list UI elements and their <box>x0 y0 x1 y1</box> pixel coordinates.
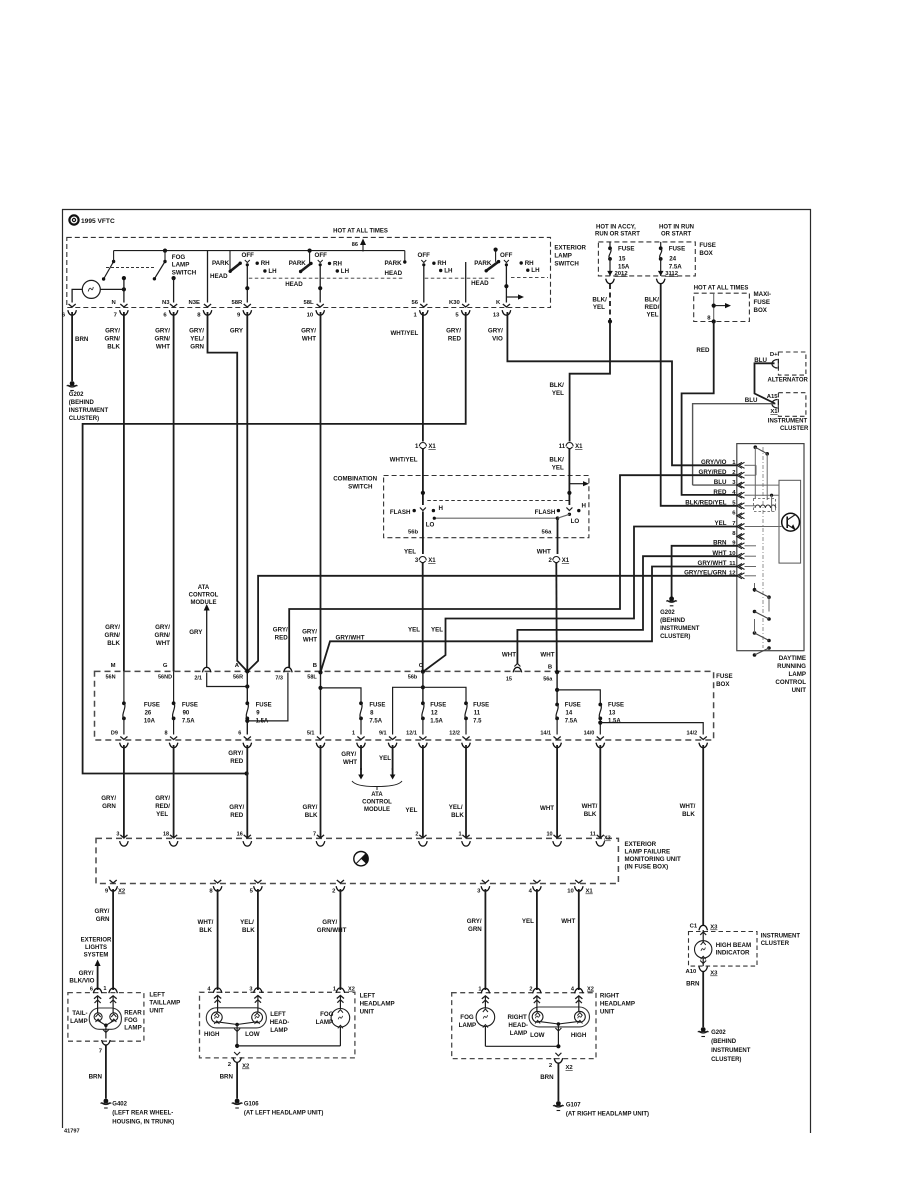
svg-text:ATA: ATA <box>371 792 383 798</box>
svg-text:FUSE: FUSE <box>430 703 446 709</box>
svg-text:GRN: GRN <box>190 344 204 351</box>
svg-text:RIGHT: RIGHT <box>600 993 619 1000</box>
svg-text:FUSE: FUSE <box>473 703 489 709</box>
svg-text:C1: C1 <box>690 924 698 930</box>
svg-text:(LEFT REAR WHEEL-: (LEFT REAR WHEEL- <box>112 1111 173 1117</box>
svg-text:HEAD: HEAD <box>210 273 228 280</box>
svg-text:LO: LO <box>426 522 435 529</box>
svg-text:13: 13 <box>493 313 500 319</box>
svg-text:BRN: BRN <box>75 336 89 343</box>
svg-text:2/1: 2/1 <box>194 676 202 682</box>
svg-text:GRY/: GRY/ <box>155 795 170 802</box>
svg-text:RED/: RED/ <box>645 304 660 311</box>
svg-text:HOT IN RUN: HOT IN RUN <box>659 225 694 231</box>
svg-text:X2: X2 <box>566 1065 574 1071</box>
svg-text:BLK/: BLK/ <box>592 297 607 304</box>
svg-text:LEFT: LEFT <box>149 992 165 999</box>
svg-text:WHT: WHT <box>502 652 516 659</box>
svg-text:BLK: BLK <box>107 640 120 647</box>
svg-text:B: B <box>548 665 552 671</box>
svg-text:WHT: WHT <box>302 336 316 343</box>
svg-text:BLK: BLK <box>107 344 120 351</box>
svg-text:WHT: WHT <box>303 637 317 644</box>
svg-text:13: 13 <box>609 711 616 717</box>
svg-text:CLUSTER: CLUSTER <box>761 941 790 947</box>
svg-text:TAILLAMP: TAILLAMP <box>149 1000 180 1007</box>
svg-text:RUNNING: RUNNING <box>777 663 806 670</box>
svg-text:(IN FUSE BOX): (IN FUSE BOX) <box>625 864 669 871</box>
svg-text:RED: RED <box>448 336 462 343</box>
svg-text:GRY: GRY <box>230 328 244 335</box>
svg-text:FUSE: FUSE <box>369 703 385 709</box>
svg-text:RH: RH <box>333 260 342 267</box>
svg-text:14: 14 <box>566 711 573 717</box>
svg-text:BOX: BOX <box>699 250 713 257</box>
svg-text:58L: 58L <box>307 675 317 681</box>
svg-text:REAR: REAR <box>124 1010 142 1017</box>
svg-text:FUSE: FUSE <box>754 299 771 306</box>
svg-text:5/1: 5/1 <box>307 731 315 737</box>
svg-text:OR START: OR START <box>661 232 692 238</box>
svg-text:2012: 2012 <box>615 271 629 277</box>
svg-text:D9: D9 <box>111 731 118 737</box>
svg-text:BLK/: BLK/ <box>549 457 564 464</box>
svg-text:7.5A: 7.5A <box>369 719 382 725</box>
svg-text:HEAD: HEAD <box>385 270 403 277</box>
svg-text:BOX: BOX <box>754 307 768 314</box>
svg-text:INSTRUMENT: INSTRUMENT <box>768 419 808 425</box>
svg-text:INDICATOR: INDICATOR <box>716 950 750 957</box>
svg-text:WHT/: WHT/ <box>198 919 214 926</box>
svg-text:YEL: YEL <box>522 918 534 925</box>
svg-text:(BEHIND: (BEHIND <box>660 618 686 624</box>
svg-text:FOG: FOG <box>124 1017 138 1024</box>
svg-text:FUSE: FUSE <box>618 246 635 253</box>
svg-text:X3: X3 <box>710 971 718 977</box>
svg-text:GRN/WHT: GRN/WHT <box>317 927 347 934</box>
svg-text:B: B <box>313 663 317 669</box>
svg-text:56N: 56N <box>106 675 116 681</box>
svg-text:56: 56 <box>412 300 419 306</box>
svg-text:FOG: FOG <box>460 1014 474 1021</box>
svg-text:EXTERIOR: EXTERIOR <box>625 841 657 848</box>
svg-text:FUSE: FUSE <box>608 703 624 709</box>
svg-text:WHT: WHT <box>537 549 551 556</box>
svg-text:RED: RED <box>696 347 710 354</box>
svg-text:3: 3 <box>249 987 252 993</box>
svg-text:LAMP: LAMP <box>172 262 190 269</box>
svg-text:GRY/: GRY/ <box>322 919 337 926</box>
svg-text:DAYTIME: DAYTIME <box>779 655 806 662</box>
svg-text:CONTROL: CONTROL <box>189 593 219 599</box>
svg-text:YEL: YEL <box>408 627 420 634</box>
svg-text:HOT AT ALL TIMES: HOT AT ALL TIMES <box>694 286 749 292</box>
svg-text:RED: RED <box>230 812 244 819</box>
svg-text:WHT: WHT <box>156 640 170 647</box>
svg-text:GRY/: GRY/ <box>105 328 120 335</box>
svg-text:BLK: BLK <box>242 927 255 934</box>
svg-text:INSTRUMENT: INSTRUMENT <box>660 626 700 632</box>
svg-text:N3: N3 <box>162 300 170 306</box>
svg-text:14/2: 14/2 <box>686 731 697 737</box>
svg-text:GRN: GRN <box>468 926 482 933</box>
svg-text:WHT: WHT <box>561 918 575 925</box>
svg-text:C: C <box>419 663 424 669</box>
svg-text:6: 6 <box>238 731 241 737</box>
svg-text:X1: X1 <box>770 409 778 415</box>
svg-text:BLK: BLK <box>199 927 212 934</box>
svg-text:LAMP FAILURE: LAMP FAILURE <box>625 849 671 856</box>
svg-text:COMBINATION: COMBINATION <box>333 476 377 483</box>
svg-text:7.5: 7.5 <box>473 719 482 725</box>
svg-text:FLASH: FLASH <box>535 509 556 516</box>
svg-text:56b: 56b <box>408 530 419 536</box>
svg-text:10A: 10A <box>144 719 156 725</box>
svg-text:15: 15 <box>619 256 626 263</box>
svg-text:G107: G107 <box>566 1103 581 1109</box>
svg-text:UNIT: UNIT <box>360 1009 375 1016</box>
svg-text:A: A <box>235 663 240 669</box>
svg-text:(BEHIND: (BEHIND <box>711 1039 737 1045</box>
svg-text:X1: X1 <box>586 889 594 895</box>
svg-text:BRN: BRN <box>220 1074 234 1081</box>
svg-text:GRY/: GRY/ <box>301 328 316 335</box>
svg-text:X1: X1 <box>562 558 570 564</box>
svg-text:GRN/: GRN/ <box>155 336 171 343</box>
svg-text:GRY/: GRY/ <box>273 627 288 634</box>
svg-text:RH: RH <box>261 260 270 267</box>
svg-text:HIGH BEAM: HIGH BEAM <box>716 942 751 949</box>
svg-text:GRY/: GRY/ <box>228 750 243 757</box>
svg-text:LOW: LOW <box>530 1032 545 1039</box>
svg-text:PARK: PARK <box>289 260 307 267</box>
svg-text:7.5A: 7.5A <box>182 719 195 725</box>
svg-text:11: 11 <box>559 444 566 450</box>
svg-text:PARK: PARK <box>212 260 230 267</box>
svg-text:YEL: YEL <box>593 304 605 311</box>
svg-text:BLK/: BLK/ <box>645 297 660 304</box>
svg-text:CLUSTER: CLUSTER <box>780 426 809 432</box>
svg-text:BLK/VIO: BLK/VIO <box>69 978 94 985</box>
svg-text:2: 2 <box>529 987 532 993</box>
svg-text:YEL/: YEL/ <box>240 919 254 926</box>
svg-text:G: G <box>163 663 168 669</box>
svg-text:90: 90 <box>183 711 190 717</box>
svg-text:WHT/: WHT/ <box>582 803 598 810</box>
svg-text:HEADLAMP: HEADLAMP <box>600 1001 635 1008</box>
svg-text:RIGHT: RIGHT <box>508 1014 527 1021</box>
svg-text:1: 1 <box>458 832 461 838</box>
svg-text:WHT: WHT <box>343 759 357 766</box>
svg-text:OFF: OFF <box>500 252 513 259</box>
svg-text:BLU: BLU <box>745 397 758 404</box>
svg-text:56R: 56R <box>233 675 243 681</box>
svg-text:GRN: GRN <box>96 916 110 923</box>
svg-text:GRY/: GRY/ <box>101 795 116 802</box>
svg-text:YEL: YEL <box>431 627 443 634</box>
svg-text:CLUSTER): CLUSTER) <box>660 634 690 640</box>
svg-text:LAMP: LAMP <box>788 671 806 678</box>
svg-text:LOW: LOW <box>245 1031 260 1038</box>
svg-text:MODULE: MODULE <box>191 600 217 606</box>
svg-text:OFF: OFF <box>315 252 328 259</box>
svg-text:RH: RH <box>437 260 446 267</box>
svg-text:7.5A: 7.5A <box>565 719 578 725</box>
svg-text:LAMP: LAMP <box>70 1018 88 1025</box>
svg-text:CLUSTER): CLUSTER) <box>69 416 99 422</box>
svg-text:BLU: BLU <box>754 357 767 364</box>
svg-text:FUSE: FUSE <box>716 673 733 680</box>
svg-text:8: 8 <box>165 731 168 737</box>
svg-text:X1: X1 <box>428 558 436 564</box>
svg-text:X1: X1 <box>428 444 436 450</box>
svg-text:YEL: YEL <box>552 465 564 472</box>
svg-text:SWITCH: SWITCH <box>554 261 579 268</box>
svg-text:FUSE: FUSE <box>565 703 581 709</box>
svg-text:MODULE: MODULE <box>364 807 390 813</box>
svg-text:BRN: BRN <box>686 981 700 988</box>
svg-text:K30: K30 <box>449 300 461 306</box>
svg-text:X2: X2 <box>242 1064 250 1070</box>
svg-text:HOT AT ALL TIMES: HOT AT ALL TIMES <box>333 229 388 235</box>
svg-text:GRY/: GRY/ <box>467 918 482 925</box>
svg-text:GRY/: GRY/ <box>488 328 503 335</box>
svg-text:16: 16 <box>237 832 243 838</box>
svg-text:INSTRUMENT: INSTRUMENT <box>761 934 801 940</box>
svg-text:A10: A10 <box>685 969 697 975</box>
svg-text:BRN: BRN <box>540 1074 554 1081</box>
svg-text:H: H <box>582 503 587 510</box>
svg-text:SYSTEM: SYSTEM <box>84 953 109 959</box>
svg-text:YEL: YEL <box>405 807 417 814</box>
svg-text:YEL: YEL <box>647 312 659 319</box>
svg-text:N: N <box>112 300 116 306</box>
svg-text:FUSE: FUSE <box>699 242 716 249</box>
svg-text:G202: G202 <box>660 610 675 616</box>
svg-text:BLK: BLK <box>305 812 318 819</box>
svg-text:1.5A: 1.5A <box>430 719 443 725</box>
svg-text:HEAD-: HEAD- <box>508 1022 528 1029</box>
svg-text:RUN OR START: RUN OR START <box>595 232 640 238</box>
svg-text:YEL/: YEL/ <box>190 336 204 343</box>
svg-text:G402: G402 <box>112 1102 127 1108</box>
svg-text:56a: 56a <box>543 677 553 683</box>
svg-text:86: 86 <box>352 242 358 248</box>
svg-text:GRN/: GRN/ <box>105 632 121 639</box>
svg-text:10: 10 <box>546 832 552 838</box>
svg-text:YEL: YEL <box>156 811 168 818</box>
svg-text:GRY/WHT: GRY/WHT <box>336 634 365 641</box>
svg-text:YEL: YEL <box>404 549 416 556</box>
svg-text:HEAD: HEAD <box>285 281 303 288</box>
svg-text:9/1: 9/1 <box>379 731 387 737</box>
svg-text:VIO: VIO <box>492 336 503 343</box>
svg-text:GRY: GRY <box>189 629 203 636</box>
svg-text:14/1: 14/1 <box>540 731 551 737</box>
svg-text:WHT/: WHT/ <box>680 803 696 810</box>
svg-text:OFF: OFF <box>242 252 255 259</box>
svg-text:6: 6 <box>90 987 93 993</box>
svg-text:58L: 58L <box>304 300 315 306</box>
svg-text:14/0: 14/0 <box>584 731 595 737</box>
svg-text:LAMP: LAMP <box>270 1027 288 1034</box>
svg-text:FUSE: FUSE <box>256 703 272 709</box>
svg-text:3112: 3112 <box>665 271 679 277</box>
svg-text:INSTRUMENT: INSTRUMENT <box>711 1048 751 1054</box>
svg-text:LH: LH <box>341 268 350 275</box>
svg-text:TAIL-: TAIL- <box>72 1010 87 1017</box>
svg-text:WHT/YEL: WHT/YEL <box>390 457 418 464</box>
svg-text:FUSE: FUSE <box>182 703 198 709</box>
svg-text:LEFT: LEFT <box>360 993 376 1000</box>
svg-text:LIGHTS: LIGHTS <box>85 945 107 951</box>
svg-text:G202: G202 <box>69 392 84 398</box>
svg-text:3: 3 <box>116 832 119 838</box>
svg-text:(BEHIND: (BEHIND <box>69 400 95 406</box>
svg-text:WHT: WHT <box>540 805 554 812</box>
svg-text:X2: X2 <box>348 987 355 993</box>
svg-text:GRY/: GRY/ <box>303 804 318 811</box>
svg-text:YEL/: YEL/ <box>449 804 463 811</box>
svg-text:56a: 56a <box>542 530 553 536</box>
svg-text:X2: X2 <box>587 987 594 993</box>
svg-text:ATA: ATA <box>198 585 210 591</box>
svg-text:HOT IN ACCY,: HOT IN ACCY, <box>596 225 636 231</box>
svg-text:GRY/: GRY/ <box>79 970 94 977</box>
svg-text:LEFT: LEFT <box>270 1011 286 1018</box>
svg-text:MONITORING UNIT: MONITORING UNIT <box>625 856 681 863</box>
svg-text:G106: G106 <box>244 1102 259 1108</box>
svg-text:LH: LH <box>531 267 540 274</box>
svg-text:BOX: BOX <box>716 681 730 688</box>
svg-text:18: 18 <box>163 832 169 838</box>
svg-text:EXTERIOR: EXTERIOR <box>554 245 586 252</box>
svg-text:ALTERNATOR: ALTERNATOR <box>768 377 809 383</box>
svg-text:RED: RED <box>230 758 244 765</box>
svg-text:7: 7 <box>313 832 316 838</box>
svg-text:(AT LEFT HEADLAMP UNIT): (AT LEFT HEADLAMP UNIT) <box>244 1111 323 1117</box>
svg-text:GRY/: GRY/ <box>105 624 120 631</box>
svg-text:10: 10 <box>307 313 314 319</box>
svg-text:X1: X1 <box>575 444 583 450</box>
svg-text:LAMP: LAMP <box>124 1025 142 1032</box>
svg-text:11: 11 <box>590 832 596 838</box>
svg-text:WHT: WHT <box>156 344 170 351</box>
svg-text:LH: LH <box>268 268 277 275</box>
svg-text:HIGH: HIGH <box>204 1031 220 1038</box>
svg-text:LH: LH <box>444 268 453 275</box>
svg-text:PARK: PARK <box>385 260 403 267</box>
svg-text:GRY/: GRY/ <box>446 328 461 335</box>
svg-text:15A: 15A <box>618 264 630 271</box>
svg-text:OFF: OFF <box>418 252 431 259</box>
svg-text:7/3: 7/3 <box>275 676 283 682</box>
svg-text:12/1: 12/1 <box>406 731 417 737</box>
svg-text:GRY/: GRY/ <box>155 328 170 335</box>
svg-text:EXTERIOR: EXTERIOR <box>81 938 112 944</box>
svg-text:GRY/: GRY/ <box>229 804 244 811</box>
svg-text:BLK/RED/YEL: BLK/RED/YEL <box>685 500 726 507</box>
svg-text:GRN/: GRN/ <box>105 336 121 343</box>
svg-text:PARK: PARK <box>474 260 492 267</box>
svg-text:1.5A: 1.5A <box>256 719 269 725</box>
svg-text:GRY/: GRY/ <box>302 629 317 636</box>
svg-text:X3: X3 <box>710 925 718 931</box>
svg-text:LAMP: LAMP <box>316 1019 334 1026</box>
svg-text:HEAD-: HEAD- <box>270 1019 290 1026</box>
svg-text:HEADLAMP: HEADLAMP <box>360 1001 395 1008</box>
svg-text:M: M <box>111 663 116 669</box>
svg-text:2: 2 <box>415 832 418 838</box>
svg-text:H: H <box>439 505 444 512</box>
svg-text:1.5A: 1.5A <box>608 719 621 725</box>
svg-text:GRY/: GRY/ <box>155 624 170 631</box>
svg-text:CONTROL: CONTROL <box>775 679 806 686</box>
svg-text:GRY/: GRY/ <box>95 908 110 915</box>
svg-text:LAMP: LAMP <box>510 1030 528 1037</box>
svg-text:RED/: RED/ <box>155 803 170 810</box>
svg-text:WHT/YEL: WHT/YEL <box>390 330 418 337</box>
svg-text:SWITCH: SWITCH <box>172 269 197 276</box>
svg-text:LAMP: LAMP <box>459 1022 477 1029</box>
svg-text:FUSE: FUSE <box>144 703 160 709</box>
svg-text:BLK/: BLK/ <box>549 382 564 389</box>
svg-text:FLASH: FLASH <box>390 509 411 516</box>
svg-text:BLK: BLK <box>451 812 464 819</box>
svg-text:WHT: WHT <box>540 652 554 659</box>
svg-text:56ND: 56ND <box>158 675 172 681</box>
svg-text:MAXI-: MAXI- <box>754 291 772 298</box>
svg-text:56b: 56b <box>408 675 418 681</box>
svg-text:HOUSING, IN TRUNK): HOUSING, IN TRUNK) <box>112 1120 174 1126</box>
svg-text:12: 12 <box>431 711 438 717</box>
svg-text:(AT RIGHT HEADLAMP UNIT): (AT RIGHT HEADLAMP UNIT) <box>566 1112 649 1118</box>
svg-text:7.5A: 7.5A <box>669 264 683 271</box>
svg-text:SWITCH: SWITCH <box>348 484 373 491</box>
svg-text:RH: RH <box>525 260 534 267</box>
svg-text:1: 1 <box>103 986 106 992</box>
svg-text:HIGH: HIGH <box>571 1032 587 1039</box>
svg-text:GRY/: GRY/ <box>341 751 356 758</box>
svg-text:YEL: YEL <box>552 390 564 397</box>
svg-text:UNIT: UNIT <box>792 687 807 694</box>
svg-text:12/2: 12/2 <box>449 731 460 737</box>
svg-text:24: 24 <box>669 256 676 263</box>
svg-text:1995 VFTC: 1995 VFTC <box>81 218 115 225</box>
svg-text:UNIT: UNIT <box>149 1008 164 1015</box>
svg-text:10: 10 <box>567 889 574 895</box>
svg-text:FOG: FOG <box>320 1011 334 1018</box>
svg-text:INSTRUMENT: INSTRUMENT <box>69 408 109 414</box>
svg-text:BLK: BLK <box>682 811 695 818</box>
svg-text:58R: 58R <box>232 300 244 306</box>
svg-text:D+: D+ <box>770 352 778 358</box>
svg-text:GRN/: GRN/ <box>155 632 171 639</box>
svg-text:X3: X3 <box>604 836 611 842</box>
svg-text:26: 26 <box>145 711 152 717</box>
svg-text:N3E: N3E <box>189 300 201 306</box>
svg-text:G202: G202 <box>711 1030 726 1036</box>
svg-text:K: K <box>496 300 501 306</box>
svg-text:GRY/: GRY/ <box>189 328 204 335</box>
svg-text:1: 1 <box>333 987 336 993</box>
svg-text:BRN: BRN <box>89 1074 103 1081</box>
svg-text:FUSE: FUSE <box>669 246 686 253</box>
svg-text:X2: X2 <box>118 889 126 895</box>
svg-text:RED: RED <box>275 635 289 642</box>
svg-text:FOG: FOG <box>172 254 186 261</box>
svg-text:HEAD: HEAD <box>471 280 489 287</box>
